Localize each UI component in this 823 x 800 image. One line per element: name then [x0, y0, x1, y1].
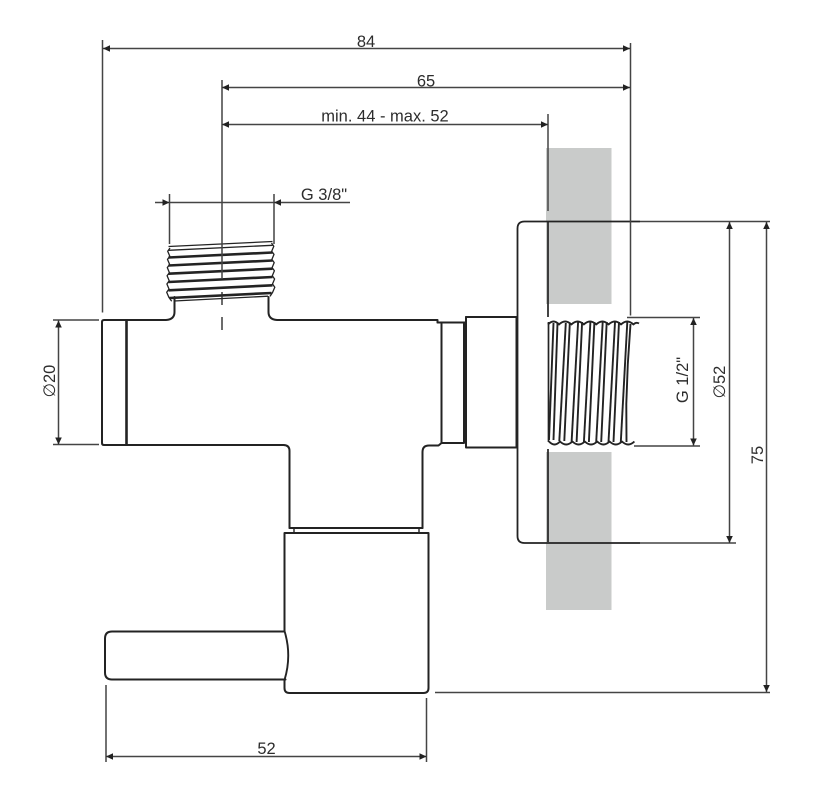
- thread left cut edge at wall: [548, 322, 550, 442]
- bottom scallop edge: [549, 442, 634, 445]
- lower housing bottom: [290, 527, 423, 529]
- center line dashes: [221, 292, 223, 330]
- svg-text:G 3/8": G 3/8": [301, 186, 347, 204]
- G3/8 ext lines: [170, 194, 275, 244]
- svg-text:65: 65: [417, 73, 435, 91]
- phi52 ext bottom: [640, 542, 736, 544]
- rosette cover plate: [518, 222, 641, 544]
- arrow G3/8 left (outside): [163, 199, 170, 206]
- G 1/2 thread (wall side): [548, 322, 639, 445]
- arrow min44 left: [222, 121, 229, 128]
- handle/bonnet fillet arc: [285, 631, 289, 680]
- left zigzag thread edge: [167, 248, 172, 301]
- arrow G1/2 top: [690, 318, 697, 325]
- center line extension: [221, 80, 223, 279]
- dim phi20 line: [58, 321, 60, 445]
- handle: [105, 632, 286, 680]
- arrow phi52 top: [726, 222, 733, 229]
- dim 65 line: [222, 87, 630, 89]
- svg-text:∅20: ∅20: [41, 365, 59, 398]
- svg-text:84: 84: [357, 33, 375, 51]
- valve body left + bottom: [102, 322, 290, 528]
- valve body outline top-left: [102, 297, 175, 322]
- groove ring top step: [438, 317, 467, 323]
- dim 84/65 ext right: [630, 43, 632, 316]
- bonnet block: [285, 533, 429, 693]
- dimension texts: [41, 33, 767, 758]
- dim 84 ext left: [102, 40, 104, 313]
- arrow 75 top: [763, 222, 770, 229]
- body cap seam: [125, 321, 128, 445]
- valve body bottom-right + mid section right: [423, 443, 442, 528]
- svg-text:75: 75: [749, 446, 767, 464]
- arrow 84 right: [623, 45, 630, 52]
- arrow G1/2 bottom: [690, 439, 697, 446]
- wall section hatch upper: [546, 148, 612, 304]
- right zigzag thread edge: [270, 243, 275, 296]
- dim 52 line: [106, 756, 427, 758]
- svg-text:52: 52: [257, 740, 275, 758]
- dimension lines: [53, 40, 770, 762]
- thread right jagged end: [626, 324, 630, 442]
- arrow min44 right: [541, 121, 548, 128]
- dim min44max52 line: [222, 124, 548, 126]
- svg-text:min. 44 - max. 52: min. 44 - max. 52: [321, 108, 448, 126]
- arrow phi20 bottom: [55, 438, 62, 445]
- 52 ext lines: [106, 685, 427, 762]
- dim G1/2 line: [693, 318, 695, 446]
- svg-text:G 1/2": G 1/2": [674, 357, 692, 403]
- valve body outline top-right: [269, 297, 438, 323]
- arrow 75 bottom: [763, 685, 770, 692]
- groove ring walls: [442, 323, 465, 444]
- arrow 84 left: [103, 45, 110, 52]
- phi52/75 ext top: [640, 221, 770, 223]
- thread ridge pair 1: [549, 323, 554, 440]
- arrow phi20 top: [55, 321, 62, 328]
- dim G3/8 line: [155, 202, 350, 204]
- wall section hatch lower: [546, 452, 612, 610]
- dim phi52 line: [729, 222, 731, 543]
- min44 ext right: [547, 114, 549, 211]
- 75 ext bottom: [435, 692, 770, 694]
- thread crest line 2: [169, 245, 273, 250]
- ring under mid section: [294, 528, 419, 533]
- arrow phi52 bottom: [726, 536, 733, 543]
- arrow G3/8 right (outside): [274, 199, 281, 206]
- svg-text:∅52: ∅52: [711, 366, 729, 399]
- wall face line: [547, 222, 549, 542]
- thread crest bands: [169, 253, 273, 258]
- arrow 52 left: [106, 753, 113, 760]
- dim 75 line: [766, 222, 768, 692]
- dim 84 line: [103, 48, 630, 50]
- top scallop edge: [548, 322, 639, 325]
- arrow 65 left: [222, 84, 229, 91]
- thread bottom runout line: [174, 296, 268, 301]
- G 3/8 thread (top port): [167, 242, 275, 302]
- G1/2 ext lines: [627, 318, 700, 447]
- hex flange: [466, 317, 517, 448]
- thread ridge pairs 2-7: [559, 323, 566, 441]
- phi20 ext lines: [53, 320, 99, 445]
- arrow 65 right: [623, 84, 630, 91]
- arrowheads: [55, 45, 770, 760]
- arrow 52 right: [420, 753, 427, 760]
- thread top edge line: [169, 242, 273, 247]
